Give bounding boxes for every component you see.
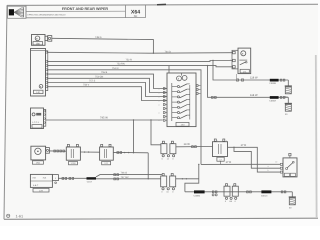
- fuse F1: [161, 141, 176, 160]
- svg-text:1: 1: [217, 139, 218, 142]
- rear washer relay E1: [213, 139, 228, 164]
- left pins of pump F: [280, 163, 282, 173]
- wiper switch S1: [167, 73, 196, 127]
- svg-text:745 W: 745 W: [100, 117, 108, 120]
- connector pin 1 of M1: [45, 36, 52, 42]
- svg-text:A B C: A B C: [33, 184, 39, 187]
- title block: [26, 5, 146, 18]
- svg-text:17H: 17H: [39, 189, 43, 192]
- connector strip of LTC: [44, 110, 46, 127]
- harness fan-out logo: [8, 6, 27, 18]
- svg-text:FRONT AND REAR WIPER: FRONT AND REAR WIPER: [62, 7, 108, 11]
- svg-text:C017: C017: [87, 180, 93, 183]
- connector strip of M2: [230, 50, 238, 69]
- wire 757 to switch pin: [48, 80, 167, 97]
- ground G1: [287, 80, 289, 86]
- wire 748 from M1 down to rear motor feed: [52, 36, 154, 54]
- svg-text:1-61: 1-61: [16, 215, 24, 219]
- branch down to washer feed: [148, 153, 149, 180]
- svg-text:L.T.C.L: L.T.C.L: [32, 121, 40, 124]
- svg-text:1B6: 1B6: [36, 42, 41, 45]
- svg-text:751 N: 751 N: [112, 67, 119, 70]
- bottom ground wire: [185, 191, 292, 193]
- svg-text:757 S: 757 S: [89, 80, 96, 83]
- svg-text:14Q: 14Q: [36, 91, 40, 94]
- svg-text:C090A: C090A: [269, 100, 276, 103]
- wire 17 main run to pump F pin1: [201, 161, 280, 172]
- inline connector pair bottom 1: [212, 191, 217, 196]
- wash-wipe timer unit T1: [30, 174, 52, 192]
- svg-text:118 W: 118 W: [250, 94, 258, 97]
- inline connector pair bottom 3: [281, 191, 286, 193]
- wire from T1: [58, 177, 86, 179]
- svg-text:754 GN: 754 GN: [95, 75, 104, 78]
- left pins of switch S1: [158, 87, 167, 122]
- rear wiper motor M2: [238, 48, 251, 74]
- ground G2: [287, 97, 289, 103]
- svg-text:755 B: 755 B: [101, 71, 108, 74]
- rear washer pump F: [275, 153, 297, 177]
- wire 751 long feed down right side: [48, 67, 201, 164]
- svg-text:3: 3: [230, 65, 231, 68]
- svg-text:746 G: 746 G: [121, 172, 128, 175]
- branch to switch top: [168, 66, 170, 73]
- svg-text:747 GV: 747 GV: [121, 176, 130, 179]
- svg-text:744 D: 744 D: [165, 50, 172, 53]
- connector pin of T1: [52, 175, 58, 184]
- svg-text:748 G: 748 G: [95, 36, 102, 39]
- inline connector pair bottom 2: [247, 191, 252, 193]
- svg-text:753 RN: 753 RN: [117, 62, 125, 65]
- ground run wire 118 upper: [212, 60, 288, 81]
- svg-text:5D: 5D: [134, 14, 138, 18]
- wire K1 to K2: [80, 151, 99, 152]
- svg-text:17F8: 17F8: [71, 162, 77, 165]
- branch down to fuse F1: [150, 119, 161, 145]
- wire K2 onward: [113, 152, 148, 154]
- svg-text:118 W: 118 W: [250, 77, 258, 80]
- wire 17 from E1 to pump F pin3: [228, 144, 281, 172]
- wire b to pump F pin2: [233, 147, 280, 169]
- connector pin of P1: [46, 148, 50, 154]
- wiper control unit U1: [31, 49, 46, 97]
- M2 ground stub: [236, 74, 238, 80]
- splice C0096: [194, 190, 205, 197]
- shield splice C090A: [269, 96, 285, 102]
- fuse F3: [224, 184, 238, 203]
- splice C0013: [261, 190, 272, 197]
- svg-text:75A: 75A: [43, 177, 47, 180]
- washer pump P1: [31, 146, 46, 164]
- wire 746 upper branch to fuse F2: [96, 172, 162, 177]
- svg-text:17 D: 17 D: [241, 144, 247, 147]
- svg-text:1: 1: [230, 51, 231, 54]
- front wiper motor M1: [32, 35, 46, 46]
- svg-text:EFFECTED ARRANGEMENT AND RELAY: EFFECTED ARRANGEMENT AND RELAY: [28, 13, 67, 16]
- wire from F2 to node: [176, 178, 199, 179]
- relay K1: [66, 144, 80, 165]
- wire 752 to rear motor pin2: [48, 58, 233, 61]
- wire 747 lower branch to fuse F2: [96, 176, 161, 180]
- svg-text:758 V: 758 V: [83, 84, 90, 87]
- wire 745 to switch: [46, 117, 163, 120]
- branch down to washer pump row: [133, 119, 134, 153]
- right pins of switch S1: [196, 84, 200, 94]
- svg-text:2: 2: [226, 139, 227, 142]
- svg-text:C0096: C0096: [194, 195, 201, 198]
- wire 755 to switch pin: [48, 71, 167, 88]
- wire 758 to switch pin: [48, 84, 167, 101]
- svg-text:17 D: 17 D: [226, 161, 232, 164]
- svg-text:C0013: C0013: [261, 195, 268, 198]
- intermittent relay LTC: [31, 108, 44, 129]
- footer page number: [7, 214, 24, 218]
- shield splice C090B: [269, 79, 285, 85]
- fuse F2: [161, 174, 176, 194]
- relay K2: [100, 144, 114, 165]
- svg-text:752 R: 752 R: [126, 58, 133, 61]
- splice C017: [87, 177, 97, 183]
- svg-text:C090B: C090B: [269, 82, 276, 85]
- wire 754 to switch pin: [48, 75, 167, 92]
- ground G3: [291, 192, 293, 197]
- wire 753 to rear motor pin3: [48, 62, 233, 66]
- jog down to bottom ground run: [185, 164, 200, 192]
- wire from P1: [49, 150, 66, 152]
- svg-text:2: 2: [230, 59, 231, 62]
- svg-text:14 W: 14 W: [184, 143, 191, 146]
- ground run wire 118 lower: [207, 65, 288, 99]
- wire 14 from F1 to relay E1: [176, 143, 213, 148]
- wire 744 pin1 to rear motor: [48, 50, 233, 53]
- connector strip of U1: [46, 51, 48, 91]
